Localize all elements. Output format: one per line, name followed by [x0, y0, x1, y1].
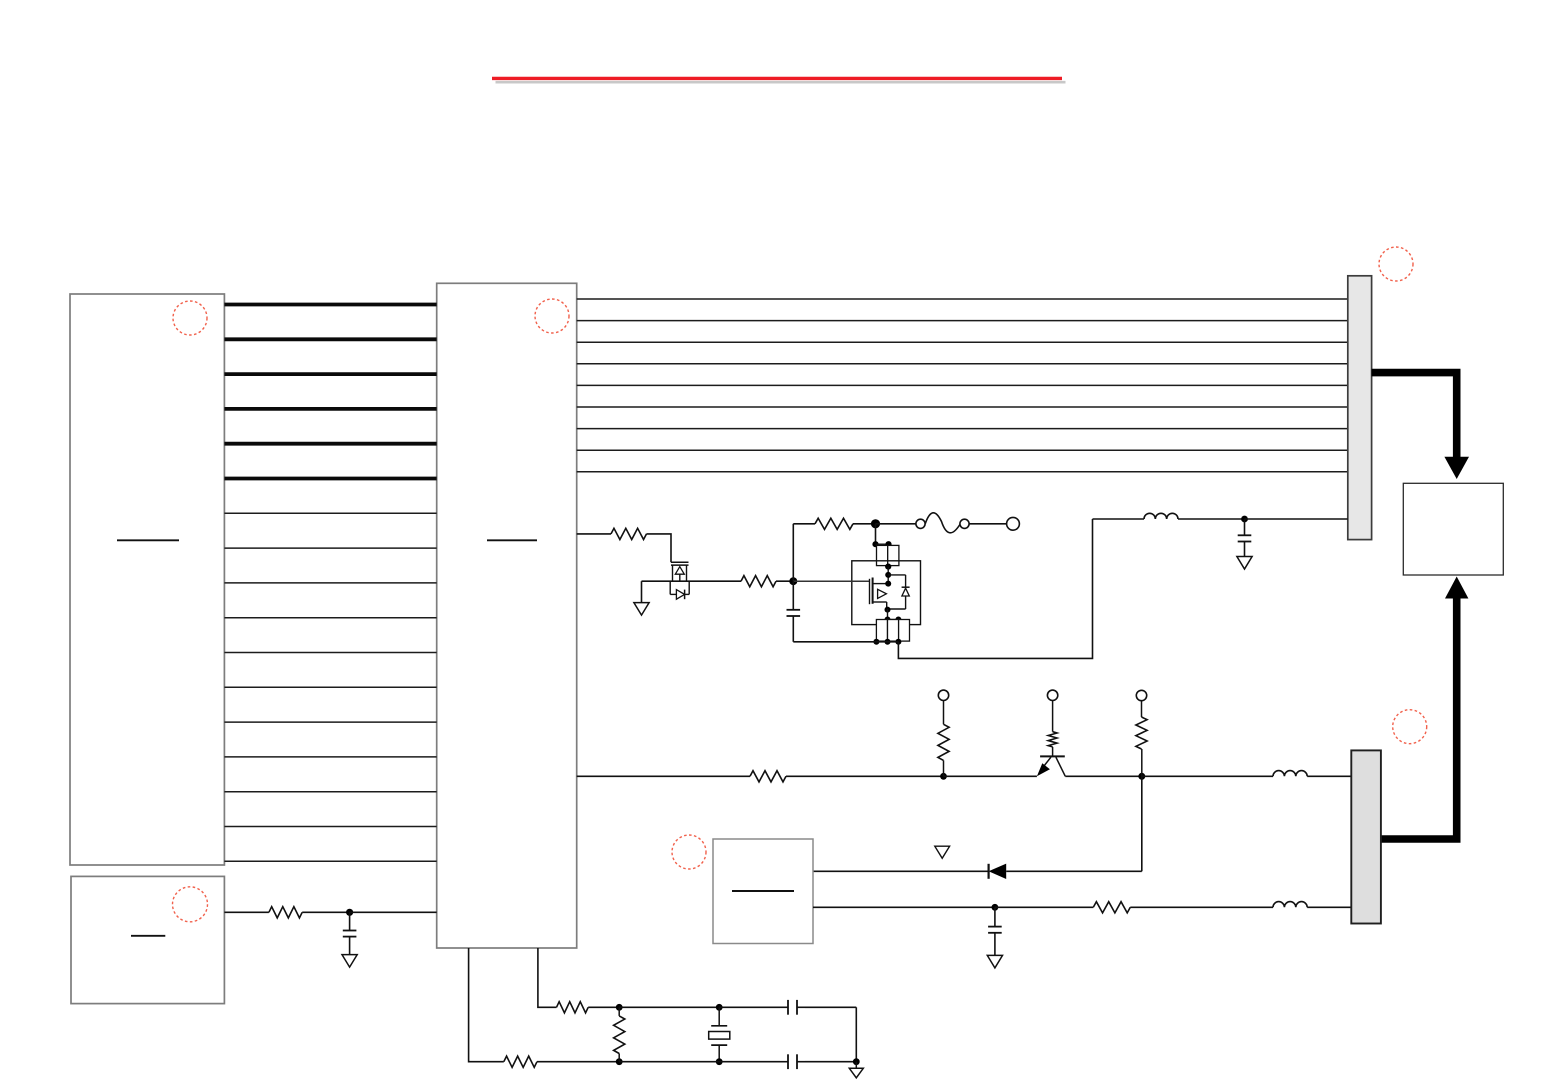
U4 label line: [732, 890, 794, 892]
MOSFET Q2 drain stub: [873, 583, 889, 585]
wire VOUT to L1: [1093, 518, 1145, 520]
wire D1 to U4: [813, 870, 989, 872]
wire bus U2-J1 line3: [577, 363, 1348, 365]
transistor Q3 base resistor: [1052, 701, 1054, 732]
wire U2 to R1: [577, 533, 611, 535]
body diode D2 bottom lead: [888, 608, 905, 610]
wire bus U2-J1 line5: [577, 406, 1348, 408]
wire VG to R3: [793, 523, 815, 525]
wire bus U2-J1 line1: [577, 320, 1348, 322]
capacitor C2: [1244, 519, 1246, 535]
capacitor C4: [349, 912, 351, 930]
wire bus U1-U2 addr0: [224, 512, 436, 514]
capacitor C6: [780, 1061, 788, 1063]
terminal TP2: [938, 690, 948, 700]
wire bus U2-J1 line6: [577, 428, 1348, 430]
transistor Q3 collector: [1056, 757, 1065, 776]
module U4 (lower-middle block): [713, 839, 813, 944]
fuse F1 right pad: [960, 519, 969, 528]
wire R3 to node VIN: [853, 523, 876, 525]
wire L1 to node VOUT2: [1178, 518, 1245, 520]
wire bus U1-U2 addr1: [224, 547, 436, 549]
wire Q2 bottom rail: [793, 641, 898, 643]
flow arrow J2 to U5 (head): [1445, 577, 1468, 599]
wire bus U2-J1 line7: [577, 449, 1348, 451]
wire node D to U2: [350, 911, 437, 913]
wire bus U2-J1 line2: [577, 341, 1348, 343]
wire bus U1-U2 addr2: [224, 582, 436, 584]
wire bus U1-U2 data5 (bold): [224, 477, 436, 481]
module U3 (lower-left block): [71, 876, 224, 1003]
junction Rb bot1: [873, 639, 879, 645]
resistor R13 (feedback): [618, 1007, 620, 1016]
marker circle on J1: [1379, 247, 1413, 281]
transistor Q3 emitter: [1041, 757, 1051, 769]
U2 label line: [487, 539, 537, 541]
wire Rs top: [876, 543, 889, 545]
junction Q2 diode tap: [885, 572, 891, 578]
fuse F1 element: [925, 513, 960, 533]
marker circle on J2: [1393, 710, 1427, 744]
wire Q1 channel: [642, 580, 742, 582]
wire node B to D1: [1006, 870, 1142, 872]
resistor R4 (sense pair): [877, 545, 888, 565]
wire bus U1-U2 data2 (bold): [224, 372, 436, 376]
ground at C3: [994, 954, 996, 956]
resistor R6: [750, 771, 786, 782]
capacitor C3: [994, 907, 996, 926]
wire C5 to node G: [805, 1006, 856, 1008]
junction Rb top1: [885, 617, 891, 623]
resistor R1: [611, 528, 647, 539]
wire Q1 source to ground: [641, 581, 643, 602]
MCU U2 (tall IC block): [437, 283, 577, 948]
junction node D: [346, 909, 353, 916]
wire node A to Q3: [944, 775, 1037, 777]
junction crystal bottom: [716, 1058, 723, 1065]
ground at C4: [349, 954, 351, 956]
junction Rs top left: [872, 541, 878, 547]
U3 label line: [131, 935, 165, 937]
wire L2 to J2: [1307, 775, 1351, 777]
junction crystal top: [716, 1004, 723, 1011]
wire bus U1-U2 addr4: [224, 652, 436, 654]
wire R12 to node X1: [588, 1006, 619, 1008]
junction Rb top2: [895, 617, 901, 623]
inductor L2: [1273, 771, 1307, 777]
wire bus U1-U2 data0 (bold): [224, 303, 436, 307]
wire bus U1-U2 addr7: [224, 756, 436, 758]
transistor Q1 lower diode: [669, 581, 671, 594]
wire VIN down to Rs bank: [875, 524, 877, 544]
transistor Q1 body: [672, 565, 674, 581]
MOSFET Q2 source stub: [873, 601, 887, 603]
flow arrow J1 to U5 (shaft): [1372, 373, 1457, 458]
wire bus U1-U2 addr6: [224, 721, 436, 723]
MOSFET Q2 arrow: [878, 589, 887, 598]
flow arrow J1 to U5 (head): [1444, 457, 1469, 479]
junction Q2 drain: [885, 581, 891, 587]
title underline (red rule): [492, 77, 1062, 80]
junction node C: [992, 904, 999, 911]
marker circle on U2: [535, 299, 569, 333]
wire node C to R9: [995, 906, 1093, 908]
ground at node G: [855, 1062, 857, 1069]
module U1 (left block): [70, 294, 224, 865]
junction node B: [1138, 773, 1145, 780]
terminal TP3: [1047, 690, 1057, 700]
wire node VG up: [792, 524, 794, 581]
transistor Q1 gate bars: [671, 561, 689, 563]
wire U2 pin XTAL1: [469, 948, 504, 1062]
resistor R2: [741, 576, 776, 587]
wire X2 to C6: [619, 1061, 780, 1063]
wire Q2 source down: [887, 609, 889, 620]
power flag net marker: [935, 846, 950, 858]
MOSFET Q2 package outline: [852, 561, 921, 625]
transistor Q3 bar: [1040, 755, 1065, 757]
resistor R12: [557, 1002, 589, 1013]
resistor R5 (sense triple): [876, 620, 887, 642]
wire bus U1-U2 data4 (bold): [224, 442, 436, 446]
marker circle on U1: [173, 301, 207, 335]
wire X1 to crystal: [619, 1006, 719, 1008]
body diode D2 top lead: [888, 574, 905, 576]
junction Rb bot2: [885, 639, 891, 645]
ground at C2: [1244, 556, 1246, 558]
wire node B down: [1141, 776, 1143, 871]
wire Rs to Q2 drain: [887, 567, 889, 584]
pull-up R7: [943, 760, 945, 776]
terminal TP4: [1136, 690, 1146, 700]
resistor R11: [504, 1056, 537, 1067]
wire bus U1-U2 addr3: [224, 617, 436, 619]
wire F1 to terminal TP1: [969, 523, 1007, 525]
wire bus U2-J1 line0: [577, 298, 1348, 300]
inductor L3: [1273, 902, 1307, 908]
junction node VIN: [871, 519, 880, 528]
wire U2 to R6: [577, 775, 750, 777]
wire X1 to C5: [719, 1006, 780, 1008]
wire node B to L2: [1142, 775, 1273, 777]
wire Q3 to node B: [1065, 775, 1142, 777]
junction node G: [853, 1058, 860, 1065]
wire Rb top: [888, 619, 899, 621]
wire R11 to node X2: [537, 1061, 619, 1063]
wire U3 to R10: [224, 911, 269, 913]
diode D1: [989, 864, 1007, 879]
wire R10 to node D: [302, 911, 349, 913]
wire bus U2-J1 line8: [577, 471, 1348, 473]
junction Rs bottom: [885, 564, 891, 570]
wire bus U1-U2 data3 (bold): [224, 407, 436, 411]
wire R9 to L3: [1130, 906, 1273, 908]
wire bus U1-U2 addr9: [224, 826, 436, 828]
junction node A: [940, 773, 947, 780]
U1 label line: [117, 539, 179, 541]
wire C6 to node G: [805, 1061, 856, 1063]
wire gate into Q2: [793, 580, 869, 582]
wire VIN to fuse F1: [876, 523, 916, 525]
marker circle on U4: [672, 835, 706, 869]
capacitor C1: [792, 581, 794, 610]
wire U2 pin XTAL2: [538, 948, 557, 1007]
terminal TP1: [1007, 517, 1020, 530]
crystal Y1: [718, 1007, 720, 1026]
wire R2 to node VG: [776, 580, 793, 582]
wire Q2 output drop: [898, 519, 1092, 658]
junction node VG: [789, 577, 797, 585]
wire node G vertical: [855, 1007, 857, 1061]
pull-up R8: [1141, 749, 1143, 776]
capacitor C5: [780, 1006, 788, 1008]
wire U4 to node C: [813, 906, 995, 908]
wire R1 to Q1 gate: [647, 534, 672, 562]
junction node X2: [616, 1058, 623, 1065]
marker circle on U3: [173, 887, 208, 922]
wire bus U1-U2 data1 (bold): [224, 337, 436, 341]
flow arrow J2 to U5 (shaft): [1381, 598, 1457, 840]
wire bus U1-U2 addr10: [224, 860, 436, 862]
resistor R10: [269, 907, 302, 918]
title underline shadow: [496, 81, 1066, 84]
MOSFET Q2 gate: [869, 579, 871, 604]
ground at Q1: [641, 602, 643, 604]
body diode D2: [902, 586, 910, 588]
inductor L1: [1144, 513, 1178, 519]
connector J2 (card-edge bar): [1351, 750, 1381, 923]
block U5 (right small box): [1403, 483, 1503, 575]
junction Q2 source: [885, 607, 891, 613]
fuse F1 left pad: [916, 519, 925, 528]
junction Rs top right: [885, 541, 891, 547]
wire R6 to node A: [786, 775, 944, 777]
junction Rb bot3: [895, 639, 901, 645]
wire L3 to J2: [1307, 906, 1351, 908]
resistor R3: [815, 518, 853, 529]
junction node VOUT2: [1241, 516, 1248, 523]
wire bus U1-U2 addr8: [224, 791, 436, 793]
junction node X1: [616, 1004, 623, 1011]
wire VOUT2 to J1: [1245, 518, 1348, 520]
wire bus U2-J1 line4: [577, 384, 1348, 386]
resistor R9: [1093, 902, 1130, 913]
wire bus U1-U2 addr5: [224, 686, 436, 688]
connector J1 (card-edge bar): [1348, 276, 1372, 540]
